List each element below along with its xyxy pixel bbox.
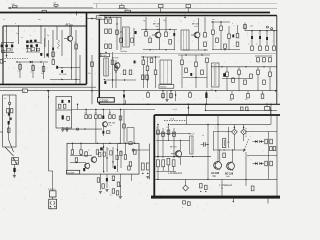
resistor RB15 — [165, 17, 168, 37]
svg-text:C28: C28 — [250, 26, 253, 28]
capacitor CM1 — [102, 109, 104, 119]
node diamond dots — [234, 131, 244, 132]
wire B long mid — [103, 53, 276, 55]
wire C r low — [245, 179, 247, 186]
wire C r t9 leads — [220, 150, 233, 161]
svg-text:OM1: OM1 — [213, 176, 217, 178]
module box head — [3, 95, 16, 147]
svg-text:47k: 47k — [245, 99, 248, 101]
wire top bus AM — [8, 7, 93, 9]
text below C1 — [182, 201, 190, 209]
wire B h29 — [141, 29, 177, 30]
wire B2 mesh v1 — [98, 144, 107, 173]
svg-text:22n: 22n — [88, 73, 91, 75]
capacitor CD1 — [61, 100, 63, 103]
wire C h140 — [156, 140, 190, 141]
resistor RB26 — [185, 68, 188, 73]
resistor RB43 — [238, 67, 241, 75]
transistor T9 AC180 — [211, 161, 222, 178]
wire A2 loop — [26, 43, 40, 52]
text AB — [88, 73, 91, 75]
transistor T2 BF195 — [112, 58, 120, 69]
text specks extra rows2 — [105, 41, 273, 43]
wire A2 vlines — [45, 38, 49, 58]
wire B r3 h67 — [211, 66, 277, 67]
wire C rect stems — [158, 165, 174, 179]
wire below B2 v100 — [99, 174, 101, 190]
svg-text:BC 158: BC 158 — [225, 172, 234, 175]
resistor RC4 — [173, 132, 176, 136]
wire left edge 2 — [0, 131, 3, 133]
resistor RB21 — [150, 58, 153, 63]
module box D — [56, 97, 72, 129]
transformer TR C1 — [189, 134, 195, 155]
resistor RB31 — [216, 38, 219, 42]
capacitor C201 top — [12, 4, 18, 8]
capacitor CB5 — [251, 31, 253, 46]
resistor RC11 — [223, 149, 226, 157]
resistor RA3a — [31, 48, 35, 51]
wire B r2 top — [244, 23, 253, 31]
resistor RB34 — [228, 34, 231, 38]
transistor T5 BF194 — [102, 121, 115, 127]
resistor RA9 — [52, 60, 55, 65]
svg-text:xx: xx — [154, 21, 156, 23]
capacitor CU1 — [106, 178, 108, 181]
wire C v163 — [162, 128, 164, 158]
transformer TR B2 — [181, 30, 189, 50]
label stereo text — [48, 189, 56, 191]
wire box B bottom — [96, 90, 277, 92]
resistor RH1 — [7, 109, 10, 113]
wire A v11 — [20, 62, 44, 79]
coil LB1 — [104, 58, 108, 76]
svg-text:5p: 5p — [47, 35, 49, 37]
resistor RB11 — [123, 70, 126, 75]
wire C h171 — [156, 170, 176, 172]
wire mid v120 — [120, 109, 121, 144]
text A mid labels — [16, 33, 49, 39]
svg-text:x2: x2 — [31, 72, 33, 74]
wire bus y90 left — [0, 90, 96, 92]
wire C v186 stub — [186, 115, 188, 124]
label box on bus — [22, 89, 27, 93]
connector J2 DIN — [49, 199, 57, 209]
wire long bus y104 — [99, 103, 280, 105]
resistor RH3 — [8, 128, 11, 133]
capacitor CB2b — [114, 166, 116, 169]
capacitor CS2 — [205, 91, 207, 105]
capacitor head dark strip — [8, 113, 12, 121]
wire B v148 — [147, 57, 149, 88]
capacitor CA20 — [46, 53, 48, 56]
capacitor CB3 — [190, 73, 192, 76]
resistor RB42 — [232, 78, 235, 82]
node B2 dots — [103, 143, 121, 173]
resistor RC17 — [270, 147, 273, 151]
capacitor CA12 — [11, 45, 13, 48]
resistor RB2c — [80, 143, 83, 155]
resistor RB2i — [128, 166, 131, 170]
resistor RB44 — [244, 80, 247, 84]
text small above trafo C — [189, 133, 204, 137]
label BC303 — [100, 53, 109, 57]
transistor T1 BF194 — [66, 24, 74, 42]
label B2 box — [66, 170, 79, 174]
resistor RB1 — [105, 17, 108, 24]
wire mid v96 — [95, 118, 97, 143]
svg-text:m5: m5 — [189, 133, 191, 135]
resistor RB12 — [129, 70, 132, 75]
transistor T6 — [91, 156, 97, 163]
capacitor C211 on bus — [186, 5, 191, 14]
svg-text:10k: 10k — [95, 113, 98, 115]
capacitor CB2 — [173, 30, 175, 51]
resistor RB51 — [269, 58, 272, 62]
wire dashed A — [2, 58, 28, 60]
diamond connector P3 — [241, 124, 247, 134]
wire B mid4 v — [182, 63, 207, 88]
svg-text:bell lioe: bell lioe — [121, 51, 129, 53]
potentiometer wiper — [243, 128, 248, 179]
svg-text:1n8: 1n8 — [53, 3, 56, 5]
transistor T8 BF194 — [170, 147, 182, 158]
connector circles right — [266, 26, 272, 30]
wire B h55 — [178, 54, 210, 55]
svg-text:m6: m6 — [202, 135, 204, 137]
wire below B2 x135 — [131, 174, 133, 181]
connector left edge 1 — [0, 60, 6, 64]
resistor RB48 — [269, 67, 272, 77]
svg-text:M5566: M5566 — [160, 87, 167, 89]
wire A v10 — [79, 55, 81, 84]
resistor R1 on bus — [42, 10, 47, 12]
resistor RB18 — [204, 42, 207, 47]
svg-text:o a: o a — [110, 195, 112, 197]
capacitor CB1 — [134, 61, 136, 64]
svg-text:ca kHz: ca kHz — [172, 109, 177, 111]
svg-text:BC5308: BC5308 — [67, 172, 74, 174]
wire B2 h162 — [70, 162, 86, 163]
diode DC4 — [260, 162, 264, 164]
capacitor CB6 — [259, 31, 261, 46]
wire C r cell — [247, 132, 277, 180]
svg-text:RC 5043: RC 5043 — [59, 74, 66, 76]
wire h110 right — [205, 110, 277, 111]
capacitor C202 top — [53, 3, 58, 8]
module box B main — [99, 16, 276, 105]
connector circle M1 — [76, 128, 78, 130]
wire top bus lower — [93, 7, 277, 9]
wire B v155 — [155, 57, 157, 88]
wire box A bottom thin — [0, 86, 96, 88]
wire T8 leads — [171, 140, 180, 165]
wire A v6 — [56, 26, 58, 40]
svg-text:mx: mx — [38, 19, 41, 21]
resistor RC2 — [162, 132, 165, 136]
speck below B2 — [96, 199, 120, 201]
resistor RB17 — [204, 17, 207, 37]
node B mid3 dots — [143, 56, 157, 80]
svg-text:o: o — [30, 35, 31, 37]
text specks box A rows — [17, 49, 49, 51]
text row bell — [121, 51, 129, 53]
resistor RB33 — [224, 44, 227, 48]
resistor RD1 — [58, 104, 61, 108]
wire J1 feed — [49, 171, 53, 191]
switch SW1 — [12, 158, 19, 165]
text specks box A rows2 — [8, 68, 48, 70]
capacitor CB9 dark — [223, 73, 225, 77]
resistor RM10 — [129, 142, 132, 145]
text C LCh — [168, 172, 182, 175]
resistor RB2 — [109, 17, 112, 24]
resistor RB32 — [220, 22, 223, 30]
wire B v121 — [120, 17, 122, 50]
capacitor CH2 — [13, 168, 18, 172]
capacitor C pair — [201, 142, 209, 146]
capacitor CA3 — [61, 70, 63, 73]
wire A v1 — [6, 25, 7, 47]
resistor RC5 — [157, 160, 160, 167]
connector circle B2r — [132, 149, 149, 151]
resistor RB27 — [195, 55, 198, 67]
svg-text:T5m: T5m — [109, 125, 113, 127]
resistor RA6 — [18, 65, 22, 73]
resistor RB41 — [226, 67, 229, 77]
resistor RB35 — [236, 25, 239, 38]
resistor RM1 — [85, 109, 88, 119]
wire B h2 — [104, 79, 136, 80]
ground U1 — [99, 192, 102, 194]
ground B2r — [146, 177, 149, 179]
transformer TR B4 — [211, 63, 220, 91]
resistor RB50 — [263, 58, 266, 62]
wire mid h109 — [72, 109, 155, 111]
text specks extra rows — [108, 33, 271, 35]
node B dots1 — [116, 23, 121, 32]
transistor T7 — [85, 163, 90, 169]
node tick — [76, 11, 78, 15]
wire B2 right v — [148, 144, 150, 180]
resistor RB39 — [266, 46, 269, 50]
wire T1 leads — [64, 26, 72, 80]
wire A h2 — [16, 61, 48, 62]
wire C h157 — [155, 156, 211, 157]
resistor RC15 — [270, 161, 273, 166]
connector circle head — [8, 102, 10, 104]
wire A h3 — [50, 79, 80, 80]
resistor RM7 — [107, 131, 110, 134]
wire mid h129 — [63, 128, 102, 129]
capacitor CA13 — [26, 40, 28, 43]
transformer TR B3 — [159, 60, 174, 89]
resistor RM8 — [119, 116, 122, 120]
capacitor CD3 — [62, 115, 67, 120]
wire C right inner v — [276, 115, 278, 196]
resistor RB47 — [263, 80, 266, 84]
svg-text:B281: B281 — [97, 18, 101, 20]
resistor RB38 — [259, 46, 262, 50]
svg-text:xx: xx — [215, 128, 217, 130]
resistor RA5 — [74, 42, 77, 49]
text specks extra rows4 — [110, 74, 269, 76]
diode DA1 — [30, 61, 32, 63]
capacitor CA16 — [26, 45, 28, 48]
wire B h57 — [141, 56, 160, 58]
wire B r3 h56 — [255, 55, 272, 57]
capacitor C210 on bus — [159, 5, 164, 14]
svg-text:xx: xx — [193, 21, 195, 23]
text head — [4, 98, 6, 100]
svg-text:xx: xx — [88, 150, 90, 152]
wire B2 mesh v2 — [110, 144, 123, 173]
node dots bus104 — [123, 104, 207, 106]
resistor RC7 — [167, 158, 170, 165]
resistor RS5 — [229, 91, 233, 102]
wire A h68 — [58, 67, 80, 68]
resistor RC9 — [200, 184, 203, 188]
resistor RC6 — [162, 160, 165, 167]
svg-text:BC303: BC303 — [101, 55, 107, 57]
resistor RB37 — [251, 46, 254, 50]
resistor RB13 — [145, 17, 148, 36]
svg-text:1p: 1p — [16, 33, 18, 35]
module box B2 — [67, 143, 139, 174]
wire B2 h155 — [70, 155, 92, 156]
capacitor CB2a — [83, 168, 85, 171]
resistor RB2h — [134, 143, 137, 155]
transformer TR B1 — [123, 27, 137, 47]
node bus dots — [47, 90, 276, 92]
resistor RB24 — [146, 75, 149, 80]
resistor RM2 — [89, 115, 92, 119]
ground S1 — [165, 100, 168, 102]
wire mid v124 — [123, 110, 125, 144]
text specks mid strip — [143, 99, 195, 101]
wire link AB — [87, 18, 100, 20]
ground U4 — [119, 197, 122, 199]
wire T3 leads — [152, 18, 160, 50]
resistor RC13 — [265, 161, 268, 166]
wire C r v222 — [221, 179, 222, 195]
wire B v116b — [115, 60, 117, 88]
wire B v144 — [142, 65, 144, 88]
resistor RB28 — [201, 70, 204, 75]
svg-text:a2: a2 — [108, 149, 110, 151]
wire J link — [52, 197, 54, 199]
wire C v174 — [173, 128, 175, 158]
capacitor CA1 — [52, 48, 54, 51]
resistor RA8 — [41, 67, 45, 75]
resistor RB40 — [273, 46, 276, 50]
capacitor CS1 — [123, 90, 125, 104]
wire box D divider — [56, 109, 72, 111]
svg-text:BF 195: BF 195 — [112, 58, 119, 60]
label antenna text — [3, 19, 71, 25]
resistor RU6 — [116, 191, 119, 195]
text specks box B row2 — [215, 46, 234, 48]
svg-text:1k: 1k — [166, 127, 168, 129]
resistor RA7 — [31, 66, 35, 74]
resistor RB30 — [212, 22, 215, 34]
svg-text:xx: xx — [165, 21, 167, 23]
transistor T10 BC158 — [225, 161, 234, 178]
wire B r3 v — [227, 74, 270, 90]
svg-text:xx: xx — [21, 37, 23, 39]
text C r label — [220, 184, 233, 187]
wire mid tick — [125, 100, 127, 104]
wire head v2 — [5, 124, 14, 156]
wire S v163 — [162, 90, 163, 99]
wire C r h131 — [213, 131, 277, 133]
wire A v7 — [61, 30, 63, 56]
svg-text:CZ300: CZ300 — [99, 99, 108, 103]
resistor RU5 — [112, 189, 115, 193]
transistor T3 BF196 — [153, 24, 161, 39]
resistor RB23 — [142, 75, 145, 80]
resistor RU2 — [102, 184, 105, 188]
svg-text:xx: xx — [180, 21, 182, 23]
svg-text:a: a — [232, 23, 233, 25]
text specks box C — [157, 126, 251, 161]
wire C r v213 — [212, 132, 214, 151]
wire S right v — [270, 104, 272, 125]
wire B r2 h31 — [245, 30, 278, 31]
wire B v112 — [112, 52, 114, 88]
resistor RB3 — [105, 29, 108, 33]
svg-text:DL A: DL A — [170, 117, 175, 120]
transistor T4 BF197 — [192, 24, 200, 39]
svg-text:22: 22 — [74, 42, 76, 44]
node B dots2 — [105, 52, 116, 73]
resistor RT1 — [240, 107, 243, 110]
wire B v117 — [116, 17, 118, 50]
capacitor CA10 — [1, 45, 3, 48]
wire C v218 — [217, 115, 218, 162]
wire C v158 — [157, 124, 158, 158]
svg-text:AC 180: AC 180 — [211, 172, 220, 175]
resistor RB49 — [257, 58, 260, 62]
svg-text:xx: xx — [144, 21, 146, 23]
resistor RS3 — [170, 94, 173, 98]
wire C h179 — [155, 179, 277, 180]
svg-text:xx: xx — [204, 21, 206, 23]
module box C — [154, 115, 280, 196]
capacitor CA11 — [5, 45, 7, 48]
ground U2 — [105, 190, 108, 192]
wire S v167 — [166, 91, 168, 99]
resistor RB22 — [154, 70, 157, 75]
wire head link — [13, 165, 15, 176]
wire A1 loop — [2, 43, 15, 53]
resistor RB10 — [115, 66, 118, 70]
node B2r dots — [142, 173, 148, 174]
resistor RB2f — [124, 143, 127, 160]
resistor RM4 — [99, 115, 102, 119]
resistor RA3b — [36, 48, 39, 51]
text B mid1 — [143, 20, 166, 38]
resistor RU1 — [97, 178, 100, 182]
capacitor CA2 — [56, 66, 58, 69]
resistor RB19 — [142, 57, 145, 65]
wire C v208 — [207, 124, 208, 180]
wire C h133 — [156, 133, 190, 134]
capacitor CT1 — [264, 103, 270, 110]
speck below C — [233, 199, 234, 203]
resistor RT2 — [245, 107, 248, 110]
diode DC3 — [253, 162, 258, 164]
